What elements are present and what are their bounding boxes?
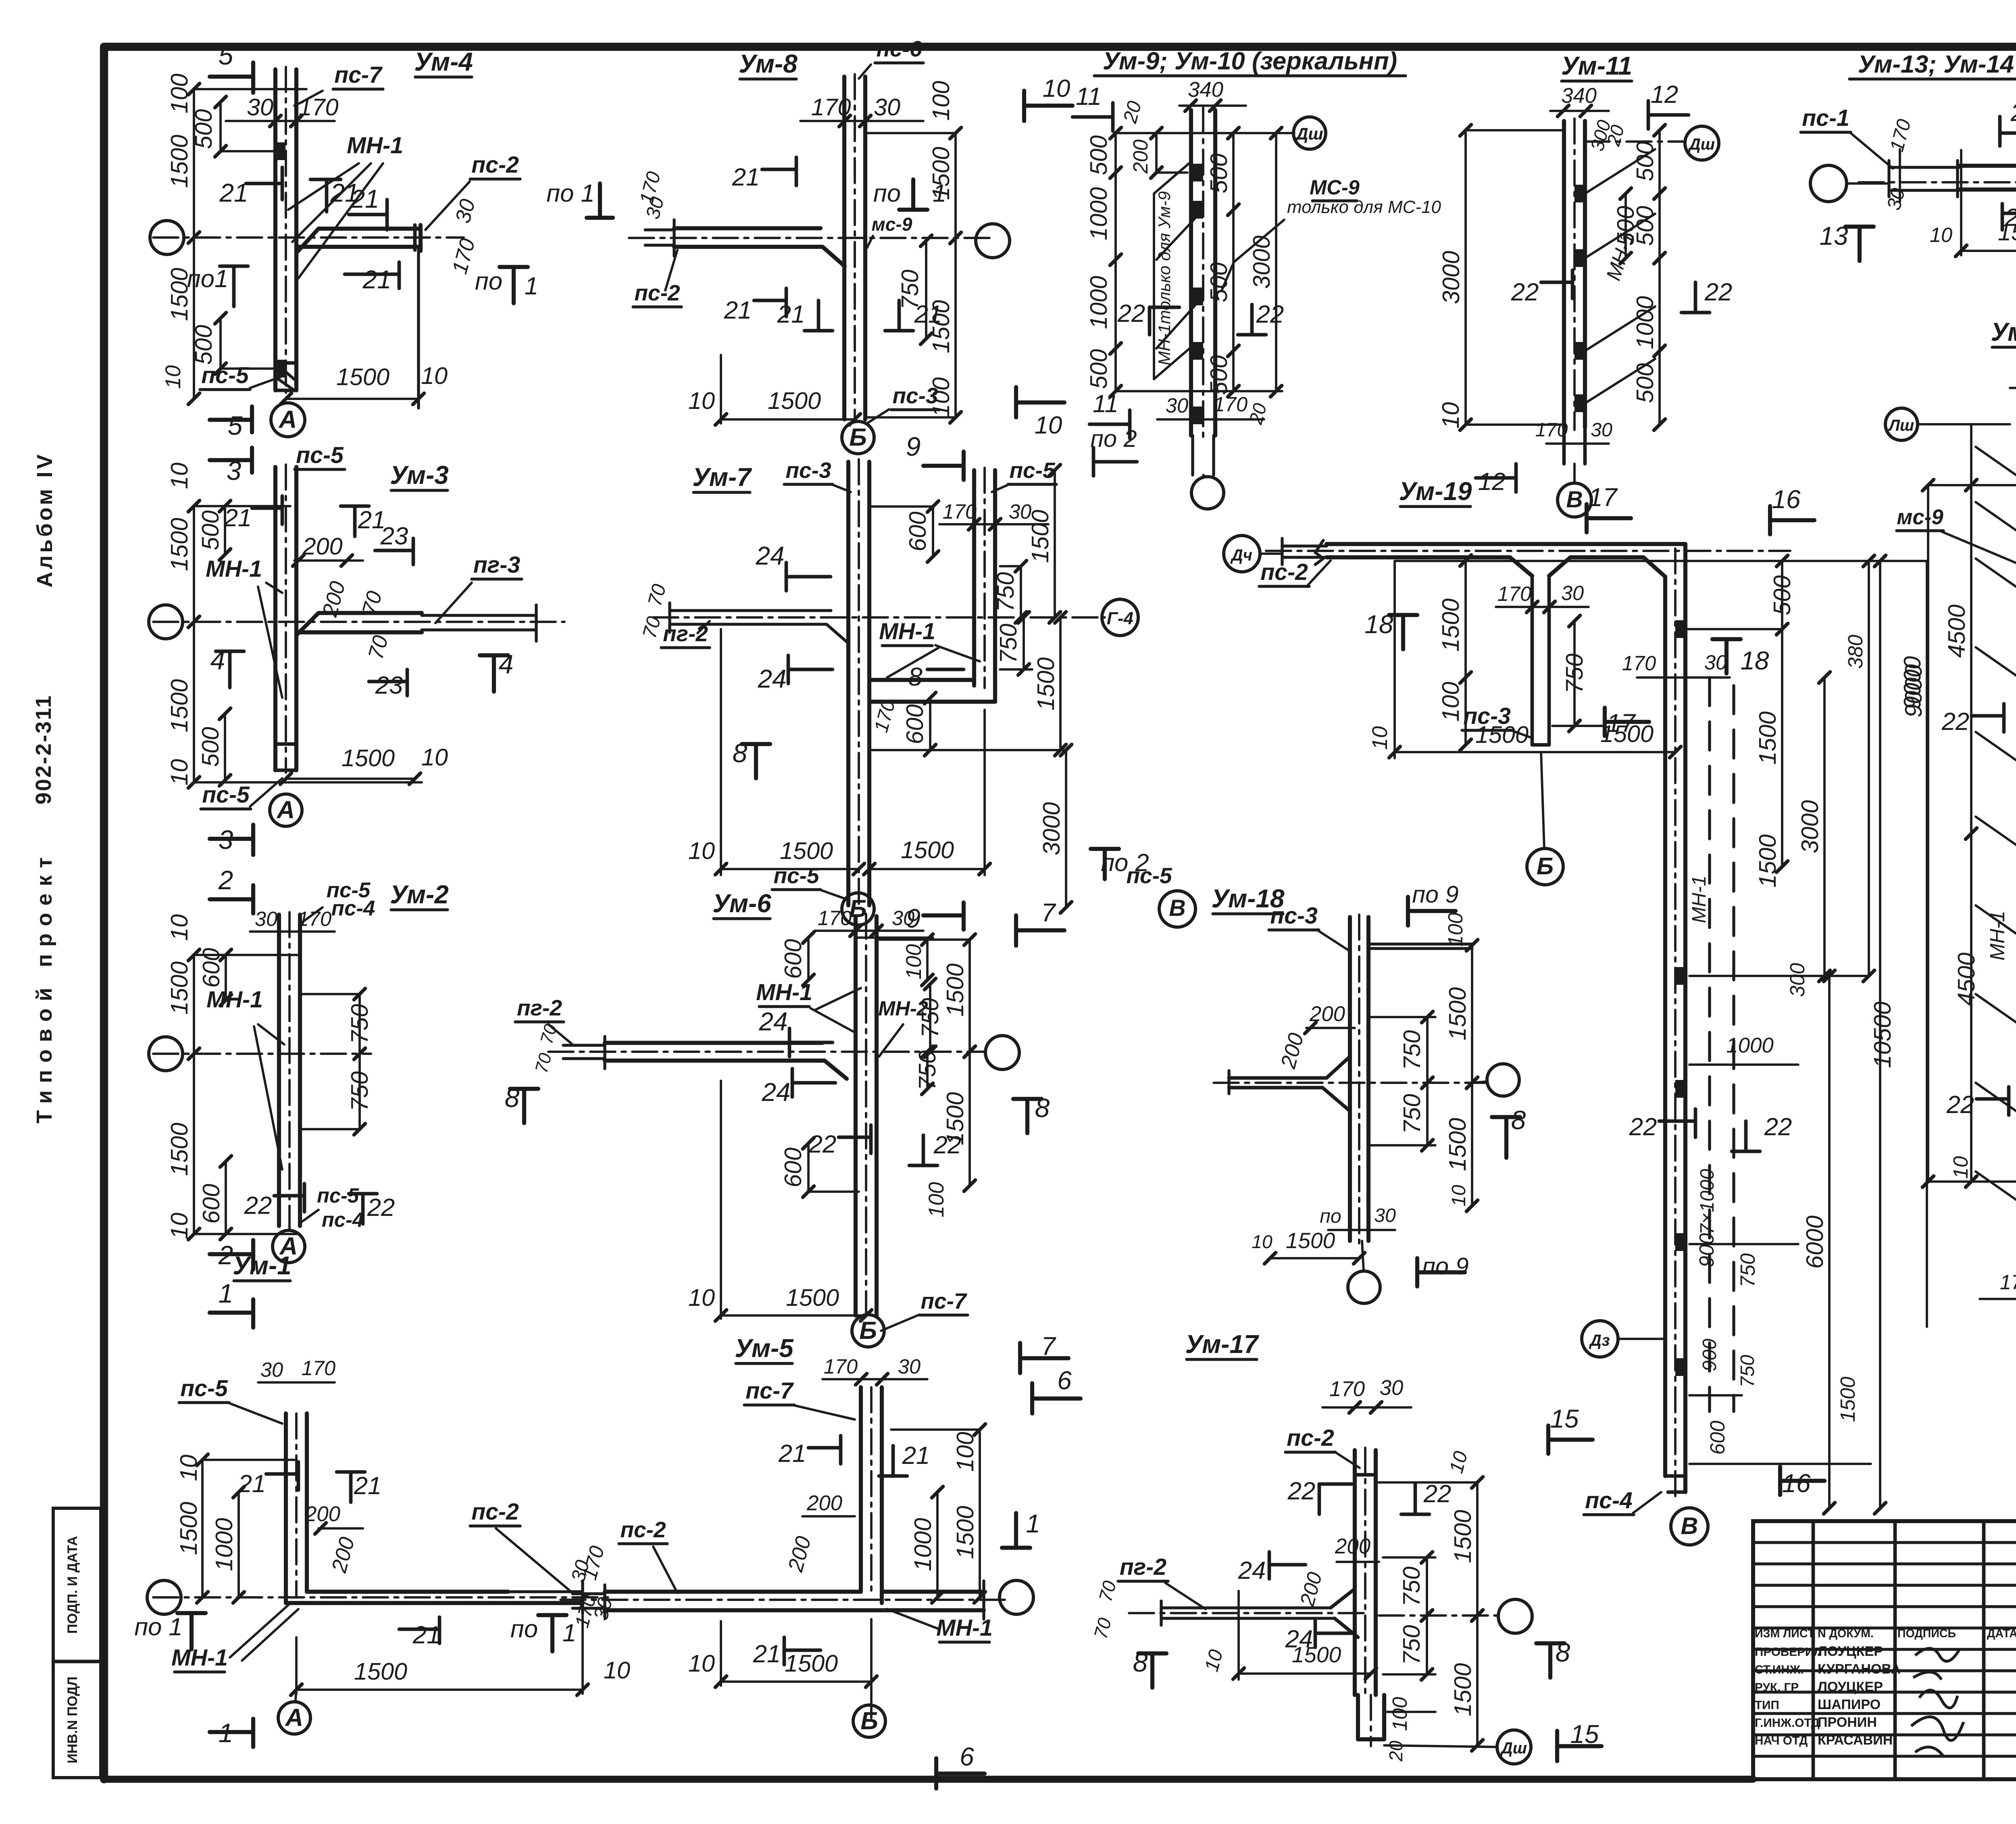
svg-text:пс-3: пс-3 bbox=[785, 458, 831, 483]
svg-text:1500: 1500 bbox=[166, 518, 193, 571]
svg-text:КУРГАНОВА: КУРГАНОВА bbox=[1818, 1661, 1901, 1677]
svg-text:18: 18 bbox=[1741, 646, 1769, 675]
svg-text:24: 24 bbox=[758, 664, 787, 693]
svg-text:10: 10 bbox=[1035, 411, 1062, 439]
svg-text:Дш: Дш bbox=[1500, 1739, 1527, 1757]
svg-text:30: 30 bbox=[874, 94, 900, 121]
svg-text:750: 750 bbox=[1398, 1625, 1425, 1665]
svg-text:НАЧ ОТД: НАЧ ОТД bbox=[1755, 1734, 1808, 1747]
svg-text:100: 100 bbox=[927, 81, 954, 121]
svg-text:МН-1: МН-1 bbox=[1688, 876, 1710, 923]
svg-text:600: 600 bbox=[779, 939, 806, 979]
svg-text:10: 10 bbox=[688, 387, 715, 414]
svg-text:1500: 1500 bbox=[941, 963, 968, 1017]
svg-text:170: 170 bbox=[1622, 652, 1656, 675]
svg-text:пс-2: пс-2 bbox=[1260, 559, 1308, 585]
svg-text:пг-2: пг-2 bbox=[517, 995, 562, 1020]
svg-text:750: 750 bbox=[995, 623, 1022, 663]
svg-text:100: 100 bbox=[166, 73, 193, 113]
svg-text:N ДОКУМ.: N ДОКУМ. bbox=[1818, 1627, 1874, 1640]
svg-text:1: 1 bbox=[933, 179, 946, 207]
svg-text:Дш: Дш bbox=[1295, 124, 1323, 143]
svg-text:600: 600 bbox=[198, 1184, 225, 1224]
svg-text:В: В bbox=[1169, 895, 1185, 921]
svg-text:1000: 1000 bbox=[210, 1518, 237, 1571]
svg-text:10: 10 bbox=[175, 1455, 202, 1481]
svg-text:пс-5: пс-5 bbox=[201, 363, 249, 388]
svg-text:170: 170 bbox=[818, 907, 852, 930]
svg-text:Б: Б bbox=[1537, 853, 1554, 880]
svg-text:11: 11 bbox=[1093, 390, 1118, 418]
svg-text:22: 22 bbox=[808, 1130, 837, 1158]
svg-text:ЛОУЦКЕР: ЛОУЦКЕР bbox=[1818, 1679, 1883, 1695]
svg-text:пс-1: пс-1 bbox=[1802, 105, 1849, 131]
svg-text:1: 1 bbox=[525, 272, 538, 300]
svg-text:1: 1 bbox=[219, 1278, 233, 1308]
svg-text:500: 500 bbox=[1631, 363, 1658, 403]
svg-text:500: 500 bbox=[197, 510, 224, 550]
svg-text:200: 200 bbox=[806, 1491, 842, 1515]
svg-text:100: 100 bbox=[925, 1182, 948, 1217]
svg-text:пс-2: пс-2 bbox=[1287, 1425, 1334, 1451]
svg-text:МН-1: МН-1 bbox=[206, 987, 263, 1013]
svg-text:1000: 1000 bbox=[1085, 187, 1112, 240]
svg-text:пс-3: пс-3 bbox=[1270, 903, 1318, 929]
svg-text:21: 21 bbox=[778, 1440, 806, 1468]
svg-text:1500: 1500 bbox=[1998, 219, 2016, 246]
svg-text:1500: 1500 bbox=[1444, 1118, 1471, 1171]
svg-text:КРАСАВИН: КРАСАВИН bbox=[1818, 1732, 1893, 1748]
svg-text:24: 24 bbox=[756, 541, 785, 570]
svg-text:РУК. ГР: РУК. ГР bbox=[1755, 1681, 1799, 1694]
svg-text:10: 10 bbox=[421, 362, 448, 389]
svg-text:Ум-8: Ум-8 bbox=[739, 49, 798, 78]
svg-text:380: 380 bbox=[1844, 635, 1867, 669]
svg-text:22: 22 bbox=[1287, 1477, 1316, 1505]
svg-text:10: 10 bbox=[1437, 402, 1464, 429]
svg-text:750: 750 bbox=[346, 1071, 373, 1111]
svg-text:по 1: по 1 bbox=[546, 179, 595, 207]
svg-text:17: 17 bbox=[1589, 483, 1618, 512]
svg-text:пс-6: пс-6 bbox=[876, 36, 922, 61]
svg-text:500: 500 bbox=[197, 727, 224, 767]
svg-text:100: 100 bbox=[1444, 913, 1467, 946]
svg-text:22: 22 bbox=[1946, 1091, 1974, 1119]
svg-text:30: 30 bbox=[260, 1358, 283, 1381]
svg-text:1500: 1500 bbox=[786, 1284, 839, 1311]
svg-text:Ум-13; Ум-14 (зеркально): Ум-13; Ум-14 (зеркально) bbox=[1858, 50, 2016, 78]
svg-text:22: 22 bbox=[1256, 300, 1284, 328]
svg-text:22: 22 bbox=[2010, 99, 2016, 127]
svg-text:21: 21 bbox=[350, 184, 379, 213]
svg-text:1500: 1500 bbox=[780, 837, 833, 864]
svg-text:1500: 1500 bbox=[1836, 1377, 1859, 1422]
svg-text:21: 21 bbox=[238, 1470, 266, 1498]
svg-text:22: 22 bbox=[244, 1192, 272, 1219]
svg-text:200: 200 bbox=[302, 533, 342, 560]
svg-text:600: 600 bbox=[198, 948, 225, 988]
svg-text:170: 170 bbox=[1535, 419, 1568, 441]
svg-text:22: 22 bbox=[1764, 1113, 1792, 1141]
svg-text:24: 24 bbox=[762, 1078, 791, 1107]
svg-text:Ум-6: Ум-6 bbox=[712, 889, 771, 918]
svg-text:100: 100 bbox=[1437, 682, 1464, 721]
svg-text:600: 600 bbox=[779, 1147, 806, 1187]
svg-text:1500: 1500 bbox=[166, 1123, 193, 1176]
svg-text:МН-1: МН-1 bbox=[879, 619, 935, 644]
svg-text:по 2: по 2 bbox=[1090, 425, 1137, 452]
svg-text:170: 170 bbox=[1329, 1377, 1365, 1401]
svg-text:500: 500 bbox=[1205, 355, 1232, 395]
svg-text:10: 10 bbox=[1043, 75, 1070, 102]
svg-text:600: 600 bbox=[901, 704, 928, 744]
svg-text:пс-5: пс-5 bbox=[1009, 458, 1056, 483]
svg-text:ПРОВЕРИЛ: ПРОВЕРИЛ bbox=[1755, 1645, 1822, 1659]
svg-text:12: 12 bbox=[1651, 81, 1679, 108]
svg-text:750: 750 bbox=[1398, 1566, 1425, 1606]
svg-text:только для МС-10: только для МС-10 bbox=[1287, 197, 1441, 217]
svg-text:1500: 1500 bbox=[1444, 987, 1471, 1040]
svg-text:30: 30 bbox=[1561, 582, 1584, 605]
svg-text:1500: 1500 bbox=[785, 1650, 838, 1677]
svg-text:100: 100 bbox=[1388, 1697, 1411, 1731]
svg-text:МС-9: МС-9 bbox=[1310, 176, 1360, 199]
svg-text:10: 10 bbox=[1949, 1156, 1972, 1179]
svg-text:200: 200 bbox=[304, 1502, 340, 1526]
svg-text:ПРОНИН: ПРОНИН bbox=[1818, 1715, 1877, 1730]
svg-text:Б: Б bbox=[859, 1317, 877, 1345]
svg-text:по: по bbox=[475, 267, 502, 295]
svg-text:170: 170 bbox=[1214, 393, 1248, 416]
svg-text:100: 100 bbox=[952, 1432, 979, 1472]
svg-text:600: 600 bbox=[1706, 1421, 1729, 1455]
svg-text:30: 30 bbox=[247, 94, 273, 121]
svg-text:170: 170 bbox=[824, 1355, 858, 1378]
svg-text:3000: 3000 bbox=[1248, 236, 1275, 289]
svg-text:пг-2: пг-2 bbox=[1120, 1554, 1166, 1580]
svg-text:750: 750 bbox=[1398, 1030, 1425, 1070]
svg-text:1500: 1500 bbox=[166, 135, 193, 188]
svg-text:1500: 1500 bbox=[354, 1658, 407, 1685]
svg-text:750: 750 bbox=[1398, 1094, 1425, 1134]
svg-text:22: 22 bbox=[1629, 1113, 1657, 1141]
svg-text:22: 22 bbox=[933, 1131, 962, 1159]
svg-text:22: 22 bbox=[1423, 1480, 1452, 1508]
svg-text:Ум-4: Ум-4 bbox=[414, 47, 473, 76]
svg-text:9000: 9000 bbox=[1900, 664, 1927, 717]
svg-text:Ум-11: Ум-11 bbox=[1561, 51, 1632, 80]
svg-text:170: 170 bbox=[298, 907, 331, 930]
svg-text:МН-1: МН-1 bbox=[347, 133, 403, 158]
svg-text:3000: 3000 bbox=[1796, 800, 1823, 853]
svg-text:пс-2: пс-2 bbox=[471, 152, 519, 178]
svg-text:30: 30 bbox=[1166, 394, 1188, 417]
svg-text:1500: 1500 bbox=[1754, 834, 1781, 888]
svg-text:21: 21 bbox=[412, 1621, 441, 1649]
svg-text:21: 21 bbox=[724, 296, 752, 324]
svg-text:Б: Б bbox=[849, 895, 867, 923]
svg-text:30: 30 bbox=[1380, 1376, 1404, 1400]
svg-text:4500: 4500 bbox=[1953, 953, 1980, 1006]
svg-text:24: 24 bbox=[759, 1007, 788, 1036]
svg-text:170: 170 bbox=[1497, 582, 1531, 605]
svg-text:ПОДП. И ДАТА: ПОДП. И ДАТА bbox=[65, 1536, 80, 1634]
svg-text:5: 5 bbox=[219, 40, 233, 70]
svg-text:10: 10 bbox=[688, 1284, 715, 1311]
svg-text:1500: 1500 bbox=[336, 363, 389, 390]
svg-text:22: 22 bbox=[1117, 300, 1145, 327]
svg-text:12: 12 bbox=[1478, 468, 1506, 496]
svg-text:по 9: по 9 bbox=[1412, 881, 1458, 908]
svg-text:22: 22 bbox=[1941, 708, 1970, 736]
svg-text:500: 500 bbox=[1085, 135, 1112, 175]
svg-text:СТ.ИНЖ.: СТ.ИНЖ. bbox=[1755, 1663, 1804, 1676]
svg-text:по 9: по 9 bbox=[1422, 1253, 1468, 1280]
svg-text:22: 22 bbox=[1704, 278, 1733, 306]
svg-text:750: 750 bbox=[1736, 1253, 1759, 1287]
svg-text:500: 500 bbox=[1205, 262, 1232, 302]
svg-text:8: 8 bbox=[1511, 1105, 1526, 1135]
svg-text:пс-5: пс-5 bbox=[773, 863, 820, 888]
svg-text:750: 750 bbox=[914, 1050, 941, 1090]
svg-text:Ум-2: Ум-2 bbox=[390, 880, 449, 909]
svg-text:10: 10 bbox=[1448, 1185, 1470, 1207]
svg-text:1500: 1500 bbox=[952, 1506, 979, 1559]
svg-text:пс-7: пс-7 bbox=[334, 62, 383, 88]
svg-text:30: 30 bbox=[1374, 1205, 1396, 1226]
svg-text:1500: 1500 bbox=[1449, 1510, 1476, 1563]
svg-text:ИЗМ ЛИСТ: ИЗМ ЛИСТ bbox=[1755, 1627, 1815, 1640]
svg-text:по: по bbox=[510, 1615, 538, 1643]
svg-text:170: 170 bbox=[2000, 1271, 2016, 1294]
svg-text:1: 1 bbox=[1026, 1509, 1040, 1538]
svg-text:21: 21 bbox=[914, 300, 942, 328]
svg-text:МН-1: МН-1 bbox=[171, 1645, 228, 1671]
svg-text:пс-5: пс-5 bbox=[180, 1376, 228, 1401]
svg-text:30: 30 bbox=[1591, 419, 1612, 441]
svg-text:750: 750 bbox=[992, 572, 1019, 612]
svg-text:340: 340 bbox=[1188, 78, 1223, 102]
svg-text:170: 170 bbox=[811, 94, 851, 121]
svg-text:170: 170 bbox=[302, 1357, 335, 1380]
svg-text:600: 600 bbox=[904, 511, 931, 551]
svg-text:10: 10 bbox=[1930, 223, 1952, 246]
svg-text:16: 16 bbox=[1782, 1469, 1811, 1498]
svg-text:Дш: Дш bbox=[1688, 135, 1715, 153]
svg-text:21: 21 bbox=[224, 504, 252, 532]
svg-text:1000: 1000 bbox=[1631, 296, 1658, 349]
svg-text:750: 750 bbox=[1737, 1355, 1758, 1388]
svg-text:В: В bbox=[1566, 487, 1583, 513]
svg-text:23: 23 bbox=[380, 522, 408, 550]
svg-text:по 1: по 1 bbox=[134, 1613, 183, 1641]
svg-text:8: 8 bbox=[908, 662, 923, 691]
svg-text:пг-3: пг-3 bbox=[473, 552, 520, 578]
svg-text:900: 900 bbox=[1695, 1233, 1718, 1267]
svg-text:пс-5: пс-5 bbox=[202, 782, 250, 808]
svg-text:пс-7: пс-7 bbox=[921, 1288, 967, 1313]
svg-text:2: 2 bbox=[218, 865, 233, 895]
svg-text:1500: 1500 bbox=[1286, 1228, 1335, 1253]
svg-text:1000: 1000 bbox=[1085, 276, 1112, 329]
svg-text:пс-3: пс-3 bbox=[892, 383, 938, 408]
svg-text:пс-2: пс-2 bbox=[620, 1517, 666, 1542]
svg-text:ЛОУЦКЕР: ЛОУЦКЕР bbox=[1818, 1644, 1883, 1659]
svg-text:1000: 1000 bbox=[909, 1518, 936, 1571]
svg-text:11: 11 bbox=[1076, 83, 1102, 110]
svg-text:21: 21 bbox=[362, 265, 392, 294]
svg-text:3000: 3000 bbox=[1437, 251, 1464, 304]
svg-text:пс-5: пс-5 bbox=[317, 1184, 359, 1207]
svg-text:902-2-311: 902-2-311 bbox=[31, 696, 56, 805]
svg-text:500: 500 bbox=[1085, 349, 1112, 389]
svg-text:Г-4: Г-4 bbox=[1107, 609, 1133, 628]
svg-text:Дч: Дч bbox=[1230, 546, 1252, 564]
svg-text:МН-1: МН-1 bbox=[936, 1615, 993, 1641]
svg-text:ДАТА: ДАТА bbox=[1987, 1627, 2016, 1640]
svg-text:1500: 1500 bbox=[768, 387, 821, 414]
svg-text:21: 21 bbox=[219, 178, 248, 207]
svg-text:300: 300 bbox=[1786, 963, 1809, 997]
svg-text:10: 10 bbox=[688, 1650, 715, 1677]
svg-text:10: 10 bbox=[604, 1657, 630, 1684]
svg-text:1500: 1500 bbox=[166, 679, 193, 732]
svg-text:21: 21 bbox=[732, 163, 760, 191]
svg-text:24: 24 bbox=[1238, 1557, 1266, 1584]
svg-text:200: 200 bbox=[1335, 1534, 1370, 1558]
svg-text:ИНВ.N ПОДЛ: ИНВ.N ПОДЛ bbox=[65, 1676, 80, 1764]
svg-text:по: по bbox=[1320, 1205, 1341, 1227]
svg-text:Б: Б bbox=[849, 423, 867, 451]
svg-text:6: 6 bbox=[960, 1742, 974, 1771]
svg-text:30: 30 bbox=[898, 1355, 921, 1378]
svg-text:22: 22 bbox=[1511, 278, 1539, 306]
svg-text:100: 100 bbox=[902, 944, 926, 980]
svg-text:21: 21 bbox=[777, 300, 805, 328]
svg-text:500: 500 bbox=[1205, 153, 1232, 193]
svg-text:Ум-20: Ум-20 bbox=[1991, 317, 2016, 346]
svg-text:30: 30 bbox=[1704, 651, 1727, 674]
svg-text:10: 10 bbox=[166, 1213, 193, 1239]
svg-text:ТИП: ТИП bbox=[1755, 1699, 1779, 1712]
svg-text:по: по bbox=[873, 179, 901, 207]
svg-text:4500: 4500 bbox=[1943, 605, 1970, 658]
svg-text:7×1000: 7×1000 bbox=[1696, 1169, 1718, 1235]
svg-text:10: 10 bbox=[421, 744, 448, 771]
svg-text:Ум-7: Ум-7 bbox=[692, 463, 752, 492]
svg-text:30: 30 bbox=[255, 907, 277, 930]
svg-text:пс-7: пс-7 bbox=[746, 1378, 794, 1404]
svg-text:1500: 1500 bbox=[1032, 657, 1059, 711]
svg-text:20: 20 bbox=[1385, 1741, 1406, 1762]
svg-text:30: 30 bbox=[892, 907, 914, 930]
svg-text:пс-4: пс-4 bbox=[322, 1208, 364, 1231]
svg-text:10: 10 bbox=[161, 365, 185, 389]
svg-text:22: 22 bbox=[367, 1194, 395, 1222]
svg-text:1500: 1500 bbox=[175, 1502, 202, 1555]
svg-text:Дз: Дз bbox=[1589, 1332, 1610, 1349]
svg-text:1500: 1500 bbox=[1027, 510, 1054, 563]
svg-text:пс-4: пс-4 bbox=[1585, 1488, 1633, 1513]
svg-text:3000: 3000 bbox=[1038, 802, 1065, 855]
svg-text:21: 21 bbox=[753, 1640, 781, 1668]
svg-text:1500: 1500 bbox=[1437, 598, 1464, 652]
svg-text:500: 500 bbox=[1768, 575, 1795, 615]
svg-text:А: А bbox=[276, 796, 295, 824]
svg-text:200: 200 bbox=[1129, 140, 1152, 174]
svg-text:по1: по1 bbox=[187, 265, 228, 293]
svg-text:1500: 1500 bbox=[901, 836, 954, 863]
svg-text:мс-9: мс-9 bbox=[872, 214, 912, 235]
svg-text:1500: 1500 bbox=[342, 744, 395, 771]
svg-text:пг-2: пг-2 bbox=[663, 621, 708, 646]
svg-text:170: 170 bbox=[298, 94, 338, 121]
svg-text:16: 16 bbox=[1772, 485, 1801, 514]
svg-text:1500: 1500 bbox=[1475, 721, 1529, 748]
svg-text:6000: 6000 bbox=[1801, 1215, 1828, 1269]
svg-text:15: 15 bbox=[1550, 1404, 1579, 1433]
svg-text:21: 21 bbox=[902, 1442, 930, 1470]
svg-text:Ум-1: Ум-1 bbox=[233, 1251, 292, 1280]
svg-text:А: А bbox=[278, 406, 297, 434]
svg-text:5: 5 bbox=[228, 411, 243, 440]
svg-text:МН-1: МН-1 bbox=[206, 556, 262, 582]
svg-text:1500: 1500 bbox=[1754, 711, 1781, 765]
svg-text:мс-9: мс-9 bbox=[1897, 505, 1943, 529]
svg-text:Г.ИНЖ.ОТД: Г.ИНЖ.ОТД bbox=[1755, 1716, 1820, 1730]
svg-text:1500: 1500 bbox=[1449, 1663, 1476, 1716]
svg-text:10: 10 bbox=[688, 837, 715, 864]
svg-text:10: 10 bbox=[1252, 1231, 1272, 1252]
svg-text:Б: Б bbox=[860, 1707, 878, 1735]
svg-text:Ум-19: Ум-19 bbox=[1399, 477, 1472, 506]
svg-text:Ум-5: Ум-5 bbox=[735, 1334, 794, 1363]
svg-text:10: 10 bbox=[166, 914, 193, 941]
svg-text:пс-5: пс-5 bbox=[1126, 863, 1173, 888]
svg-text:пс-2: пс-2 bbox=[634, 280, 680, 305]
svg-text:Лш: Лш bbox=[1888, 417, 1914, 434]
svg-text:750: 750 bbox=[916, 998, 943, 1038]
svg-text:10: 10 bbox=[1368, 726, 1392, 750]
svg-text:500: 500 bbox=[190, 109, 217, 149]
svg-text:пс-5: пс-5 bbox=[296, 442, 344, 468]
svg-text:750: 750 bbox=[346, 1004, 373, 1044]
svg-text:пс-4: пс-4 bbox=[331, 896, 375, 920]
svg-text:500: 500 bbox=[190, 325, 217, 365]
svg-text:21: 21 bbox=[354, 1472, 382, 1500]
svg-text:170: 170 bbox=[943, 500, 977, 523]
svg-text:10500: 10500 bbox=[1869, 1001, 1896, 1068]
svg-text:Ум-9; Ум-10 (зеркальнп): Ум-9; Ум-10 (зеркальнп) bbox=[1103, 47, 1397, 75]
svg-text:МН-1: МН-1 bbox=[1986, 911, 2009, 961]
svg-text:7: 7 bbox=[1041, 898, 1056, 927]
svg-text:10: 10 bbox=[166, 463, 193, 489]
svg-text:900: 900 bbox=[1699, 1339, 1720, 1372]
svg-text:Ум-3: Ум-3 bbox=[390, 461, 449, 490]
svg-text:Ум-17: Ум-17 bbox=[1185, 1330, 1259, 1359]
svg-text:А: А bbox=[285, 1704, 303, 1732]
svg-text:750: 750 bbox=[1561, 653, 1588, 693]
svg-text:6: 6 bbox=[1057, 1366, 1072, 1395]
svg-text:Альбом IV: Альбом IV bbox=[33, 454, 57, 588]
svg-text:23: 23 bbox=[375, 671, 403, 699]
svg-text:1500: 1500 bbox=[166, 961, 193, 1015]
svg-text:1500: 1500 bbox=[1292, 1642, 1341, 1667]
svg-text:В: В bbox=[1681, 1512, 1698, 1539]
svg-text:ШАПИРО: ШАПИРО bbox=[1818, 1697, 1881, 1712]
svg-text:9: 9 bbox=[906, 432, 921, 461]
svg-text:10: 10 bbox=[166, 759, 193, 786]
